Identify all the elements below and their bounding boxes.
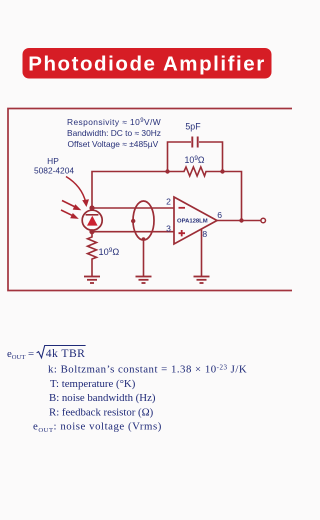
node: feedback left junction bbox=[165, 169, 169, 173]
wire: guard to ground bbox=[143, 240, 145, 277]
output terminal bbox=[261, 218, 266, 223]
svg-text:3: 3 bbox=[166, 223, 171, 233]
node: output junction bbox=[239, 218, 243, 222]
svg-text:Photodiode Amplifier: Photodiode Amplifier bbox=[28, 53, 266, 76]
wire: pin 8 to ground bbox=[201, 230, 203, 277]
node: feedback right junction bbox=[220, 169, 224, 173]
op-amp plus sign bbox=[179, 230, 186, 236]
svg-text:Responsivity ≈ 109V/W: Responsivity ≈ 109V/W bbox=[67, 117, 161, 127]
resistor R1 10^9 ohm to ground bbox=[88, 232, 97, 277]
photodiode triangle bbox=[87, 216, 98, 226]
svg-text:R: feedback resistor (Ω): R: feedback resistor (Ω) bbox=[49, 406, 154, 418]
leader curve arrow to photodiode bbox=[66, 177, 86, 203]
svg-text:Offset Voltage ≈ ±485µV: Offset Voltage ≈ ±485µV bbox=[68, 139, 159, 149]
node: guard left bbox=[131, 219, 135, 223]
svg-text:4k TBR: 4k TBR bbox=[46, 347, 86, 360]
svg-text:B: noise bandwidth (Hz): B: noise bandwidth (Hz) bbox=[49, 392, 156, 404]
node: photodiode top bbox=[89, 205, 94, 210]
wire: non-inverting input (pin3) bbox=[92, 231, 174, 233]
svg-text:8: 8 bbox=[202, 229, 207, 239]
svg-text:5pF: 5pF bbox=[185, 122, 201, 132]
ground: photodiode resistor bbox=[84, 277, 100, 284]
svg-text:Bandwidth: DC to ≈ 30Hz: Bandwidth: DC to ≈ 30Hz bbox=[67, 128, 161, 138]
svg-text:T: temperature (°K): T: temperature (°K) bbox=[50, 378, 136, 390]
op-amp U1 OPA128LM bbox=[174, 197, 217, 244]
wire: feedback to output bbox=[223, 172, 242, 221]
light arrow 1 bbox=[62, 201, 77, 208]
svg-text:HP: HP bbox=[47, 156, 59, 166]
photodiode cathode bar bbox=[86, 214, 99, 216]
wire: photodiode top to feedback bbox=[92, 172, 168, 209]
svg-text:OPA128LM: OPA128LM bbox=[177, 219, 208, 225]
op-amp minus sign bbox=[179, 207, 186, 209]
title banner bbox=[23, 48, 272, 79]
light arrow 2 bbox=[61, 210, 74, 216]
capacitor C1 loop right bbox=[199, 142, 223, 172]
circuit box frame bbox=[8, 109, 300, 291]
capacitor C1 plates bbox=[192, 137, 197, 148]
svg-text:5082-4204: 5082-4204 bbox=[34, 166, 74, 176]
ground: guard bbox=[136, 277, 152, 284]
node: photodiode bottom bbox=[89, 229, 94, 234]
ground: op-amp pin 8 bbox=[194, 277, 210, 284]
wire: inverting input (pin2) bbox=[92, 207, 174, 209]
wire: output bbox=[217, 220, 261, 222]
node: guard bottom bbox=[142, 237, 146, 241]
svg-text:6: 6 bbox=[217, 210, 222, 220]
resistor RF 10^9 ohm feedback bbox=[168, 167, 223, 176]
photodiode D1 bbox=[82, 210, 102, 230]
guard ring ellipse bbox=[133, 201, 154, 240]
capacitor C1 5pF loop left bbox=[168, 142, 192, 172]
svg-text:2: 2 bbox=[166, 197, 171, 207]
